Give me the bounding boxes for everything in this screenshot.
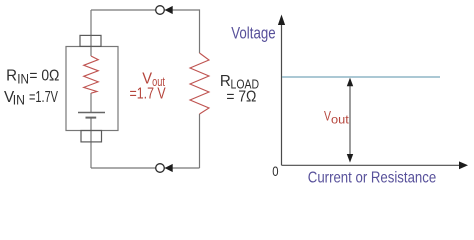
wire bottom horizontal right segment <box>164 167 199 169</box>
V_out measurement arrow head (up) <box>347 78 353 87</box>
wire internal stub between R_IN and battery <box>90 93 92 113</box>
constant voltage level line <box>282 76 440 78</box>
y-axis arrow head <box>278 15 285 26</box>
wire bottom-left vertical (source bottom lead) <box>90 118 92 169</box>
svg-text:R: R <box>6 67 17 84</box>
svg-text:Current or Resistance: Current or Resistance <box>308 169 436 186</box>
x-axis arrow head <box>459 161 468 169</box>
node circle (bottom) <box>156 164 165 173</box>
svg-text:IN: IN <box>13 91 25 107</box>
node circle (top) <box>156 6 165 15</box>
current arrow head (top, pointing left) <box>165 6 173 14</box>
label R_IN = 0 ohm <box>6 67 59 86</box>
svg-text:0: 0 <box>272 163 278 179</box>
battery cell short plate <box>86 117 97 119</box>
wire right branch upper <box>199 9 201 53</box>
current arrow head (bottom, pointing left) <box>165 164 173 172</box>
terminal square (bottom) <box>81 131 102 142</box>
svg-text:= 0Ω: = 0Ω <box>29 67 59 84</box>
label V_IN = 1.7V <box>4 89 58 107</box>
svg-text:out: out <box>331 112 350 126</box>
wire bottom horizontal left segment <box>91 167 156 169</box>
V_out measurement arrow head (down) <box>347 154 353 163</box>
x-axis (Current or Resistance axis) <box>282 164 460 166</box>
wire top-left vertical (source top lead) <box>90 10 92 56</box>
wire top horizontal right segment <box>164 9 199 11</box>
voltage source enclosure box <box>66 47 118 131</box>
resistor R_IN zigzag (internal resistance) <box>84 56 99 93</box>
svg-text:=1.7V: =1.7V <box>29 89 58 106</box>
svg-text:Voltage: Voltage <box>231 24 275 42</box>
svg-text:=1.7 V: =1.7 V <box>130 85 166 102</box>
V_out measurement arrow shaft <box>349 85 351 157</box>
terminal square (top) <box>80 35 101 46</box>
battery cell long plate <box>78 112 105 114</box>
label V_out (circuit, red) <box>130 71 166 103</box>
wire top horizontal left segment <box>91 9 156 11</box>
wire right branch lower <box>199 114 201 168</box>
y-axis (Voltage axis) <box>281 24 283 165</box>
svg-text:IN: IN <box>17 71 29 87</box>
svg-text:= 7Ω: = 7Ω <box>226 89 256 106</box>
svg-text:R: R <box>220 73 231 90</box>
resistor R_LOAD zigzag <box>190 53 209 114</box>
label V_out (graph, red) <box>324 108 350 127</box>
label R_LOAD = 7 ohm <box>220 73 259 106</box>
